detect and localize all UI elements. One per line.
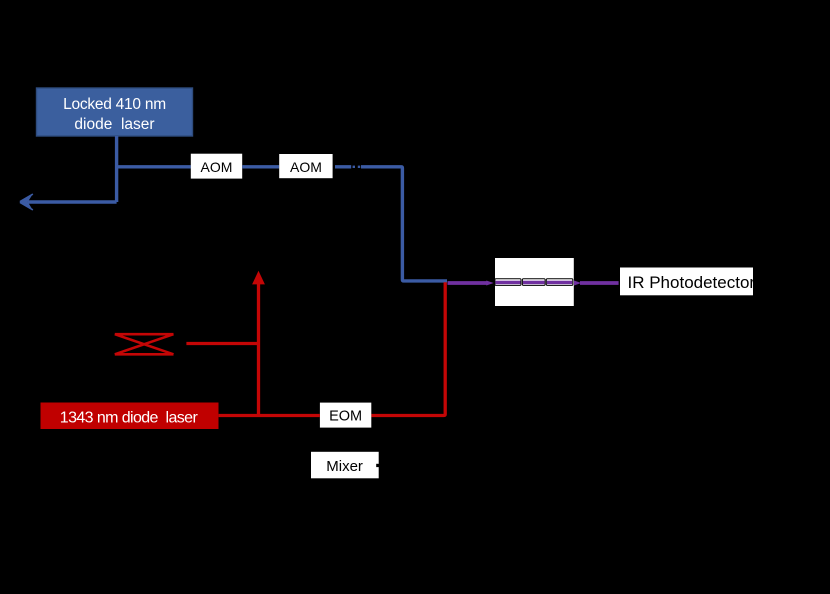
box: 1343 nm diode laser <box>41 403 219 430</box>
svg-text:Locked 410 nm: Locked 410 nm <box>63 96 166 113</box>
svg-text:IR Photodetector: IR Photodetector <box>628 273 756 292</box>
wire: blue dot 1 <box>353 166 355 168</box>
svg-text:diode laser: diode laser <box>74 116 154 133</box>
svg-text:1343 nm diode laser: 1343 nm diode laser <box>60 409 199 426</box>
wire: red from 1343 laser to EOM <box>219 414 320 417</box>
wire: red horizontal from bowtie to vertical line <box>186 342 257 345</box>
box: cavity (large white) <box>495 258 574 306</box>
svg-text:Mixer: Mixer <box>326 458 363 475</box>
wire: red vertical from junction down to EOM output line <box>371 282 445 415</box>
wire: purple combined beam to cavity <box>448 281 488 285</box>
box: IR Photodetector <box>620 268 755 296</box>
wire: blue vertical from 410nm laser down to pickoff <box>115 136 118 202</box>
arrowhead: purple right-pointing before cavity <box>486 281 493 286</box>
wire: blue from vertical to AOM1 <box>117 165 191 168</box>
box: Locked 410 nm diode laser <box>37 88 193 136</box>
arrowhead: purple right-pointing after cavity <box>574 281 581 286</box>
component: cavity cell segment 3 <box>546 279 573 286</box>
arrowhead: blue left-pointing <box>19 194 33 210</box>
wire: blue short dash after AOM2 <box>335 165 351 168</box>
component: cavity cell segment 2 <box>522 279 545 286</box>
box: AOM 1 <box>191 154 242 179</box>
wire: blue horizontal to left arrow <box>28 200 117 203</box>
component: red bowtie symbol <box>115 334 174 354</box>
wire: blue dot 2 <box>358 166 360 168</box>
box: AOM 2 <box>279 154 332 178</box>
svg-text:EOM: EOM <box>329 408 362 424</box>
wire: blue between AOM1 and AOM2 <box>242 165 279 168</box>
svg-text:AOM: AOM <box>290 159 322 175</box>
wire: black stub entering Mixer box <box>376 464 383 467</box>
svg-text:AOM: AOM <box>201 159 233 175</box>
wire: blue elbow down to beam-combining junction <box>361 167 447 281</box>
arrowhead: red up-pointing <box>252 271 265 285</box>
box: Mixer <box>311 452 379 479</box>
wire: red vertical with up arrow (RF drive) <box>257 284 260 416</box>
wire: purple beam from cavity to photodetector <box>580 281 619 285</box>
box: EOM <box>320 403 371 428</box>
component: cavity cell segment 1 <box>495 279 521 286</box>
